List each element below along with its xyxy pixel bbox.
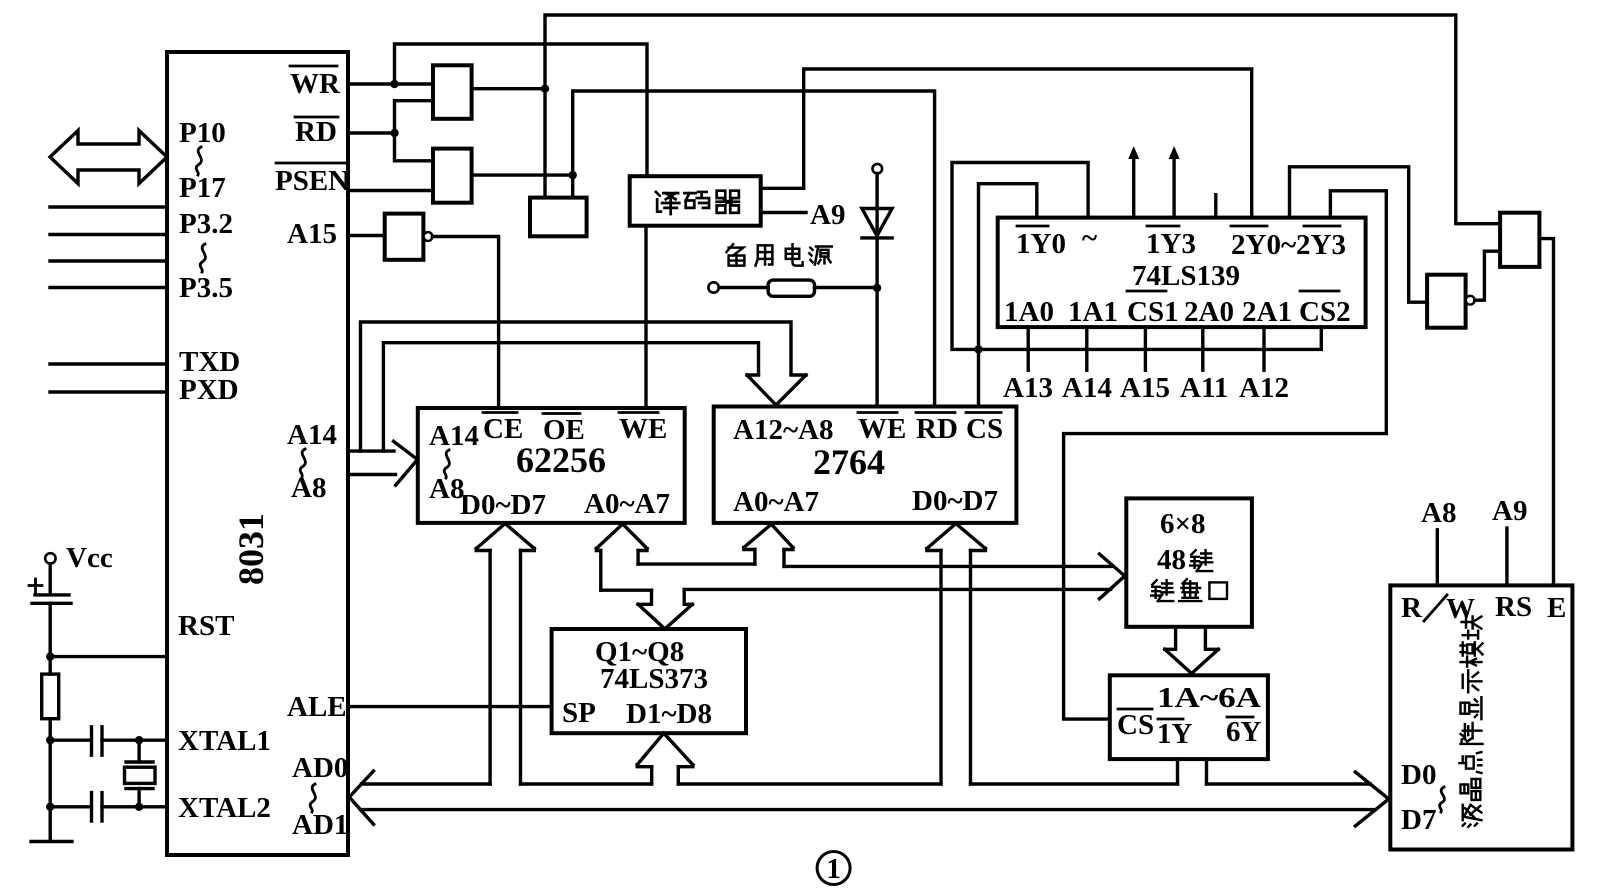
wire G2 junction down to gate SB	[571, 175, 574, 198]
wire 1Y0 to 2764 CS	[979, 184, 1037, 407]
wire G3 output to 62256 CE	[432, 237, 498, 409]
wire G2 output	[472, 173, 573, 176]
bus arrow keyboard to row decoder	[1165, 627, 1219, 674]
svg-text:WR: WR	[290, 68, 341, 100]
resistor R1	[768, 280, 814, 296]
output arrow 1Y3 up	[1172, 152, 1175, 218]
node XTAL1 junction	[46, 736, 54, 744]
pin 1A1 wire to A14	[1085, 327, 1088, 370]
svg-text:1Y: 1Y	[1157, 718, 1193, 750]
svg-text:A13: A13	[1003, 372, 1053, 404]
node WR junction	[390, 80, 398, 88]
svg-text:6Y: 6Y	[1226, 716, 1262, 748]
svg-text:WE: WE	[858, 413, 906, 445]
wire Vcc to capacitor C1	[49, 564, 52, 592]
svg-text:PXD: PXD	[179, 374, 239, 406]
backup power terminal	[708, 282, 718, 292]
svg-text:P17: P17	[179, 172, 226, 204]
wire PSEN from 8031	[348, 189, 433, 192]
wire 1Y output to data bus	[1176, 759, 1179, 784]
svg-text:CS: CS	[1117, 709, 1154, 741]
svg-text:A9: A9	[810, 199, 845, 231]
decoder label 译码器	[656, 192, 679, 214]
Vcc terminal	[45, 553, 55, 563]
svg-text:E: E	[1547, 592, 1566, 624]
data bus chevron into 8031	[349, 771, 373, 824]
wire 6Y output to data bus	[1205, 759, 1208, 784]
wire WR up to top rail	[395, 44, 648, 176]
svg-text:P3.5: P3.5	[179, 272, 233, 304]
gate G4 (E strobe)	[1500, 213, 1539, 267]
diode D1	[875, 174, 878, 407]
capacitor C3	[92, 793, 103, 821]
microcontroller U1 8031	[167, 52, 348, 855]
inverter G3 (A15)	[385, 214, 424, 260]
wire C1 to RST node	[49, 603, 52, 656]
node crystal bottom junction	[135, 803, 143, 811]
svg-text:WE: WE	[619, 413, 667, 445]
wire decoder bottom to 62256 WE	[644, 226, 647, 408]
wire crystal bottom lead	[137, 789, 140, 807]
gate G1 (WR/RD)	[433, 65, 472, 119]
svg-text:1Y0: 1Y0	[1016, 228, 1066, 260]
wire G1 output	[472, 87, 545, 90]
bus shaft 2764 D0-D7 to data bus	[941, 551, 971, 785]
wire A15 from 8031	[348, 234, 385, 237]
svg-text:W: W	[1446, 593, 1475, 625]
bus arrow up into 62256 A0-A7	[596, 524, 647, 551]
svg-text:2764: 2764	[813, 442, 885, 482]
node XTAL2 junction	[46, 803, 54, 811]
node RD junction	[390, 129, 398, 137]
wire TXD	[50, 362, 167, 365]
node G1 output junction	[541, 85, 549, 93]
decoder box	[630, 176, 761, 226]
wire ALE to SP	[348, 705, 552, 708]
keyboard bus chevron	[1099, 554, 1124, 599]
bus shaft 62256 D0-D7 to data bus	[490, 551, 520, 785]
svg-text:R: R	[1401, 592, 1423, 624]
wire C2 to XTAL1 pin	[102, 739, 167, 742]
squiggle P10-P17	[196, 147, 201, 175]
svg-text:RST: RST	[178, 610, 234, 642]
wire RD to gate G2 input	[395, 133, 434, 161]
svg-text:~: ~	[1082, 222, 1097, 254]
pin 2A0 wire to A11	[1201, 327, 1204, 370]
wire P3.4	[50, 259, 167, 262]
row decoder box 1A-6A	[1110, 675, 1268, 759]
output arrow 1Y up	[1132, 152, 1135, 218]
bus shaft 74LS373 D1-D8	[652, 767, 679, 784]
bus shaft 62256 A0-A7	[601, 551, 638, 591]
wire C3 to XTAL2 pin	[102, 805, 167, 808]
svg-text:A11: A11	[1180, 372, 1228, 404]
capacitor C1 (reset cap)	[32, 595, 71, 603]
svg-text:P3.2: P3.2	[179, 208, 233, 240]
pin CS1 wire to A15	[1144, 327, 1147, 370]
svg-text:2A0: 2A0	[1184, 296, 1234, 328]
ground	[31, 840, 72, 843]
resistor R2	[42, 674, 59, 719]
wire R1 to diode node	[815, 286, 878, 289]
wire A9 to LCD RS	[1505, 528, 1508, 585]
svg-text:CS: CS	[966, 413, 1003, 445]
svg-text:62256: 62256	[516, 440, 606, 480]
wire XTAL1 left segment	[50, 739, 89, 742]
svg-text:SP: SP	[562, 697, 596, 729]
address rail outer (A12-A8 to 2764)	[361, 322, 792, 451]
svg-text:2Y0~2Y3: 2Y0~2Y3	[1231, 229, 1346, 261]
wire P3.5	[50, 286, 167, 289]
capacitor C1 plus sign	[29, 579, 42, 592]
node G2 output junction	[569, 171, 577, 179]
svg-text:AD0: AD0	[292, 752, 348, 784]
wire P3.3	[50, 233, 167, 236]
svg-text:D1~D8: D1~D8	[626, 698, 712, 730]
wire G2 output to 2764 RD	[573, 91, 935, 407]
bus arrow down into 2764 A12-A8	[747, 375, 806, 405]
svg-text:RD: RD	[916, 413, 958, 445]
wire PXD	[50, 390, 167, 393]
wire RD from 8031	[348, 131, 395, 134]
bus arrow up into 2764 A0-A7	[744, 524, 793, 549]
wire XTAL2 left segment	[50, 805, 89, 808]
bus arrow down into 74LS373 Q1-Q8	[638, 589, 692, 629]
wire P3.2	[50, 205, 167, 208]
node RST junction	[46, 652, 54, 660]
svg-text:A0~A7: A0~A7	[584, 488, 670, 520]
svg-text:A0~A7: A0~A7	[733, 486, 819, 518]
svg-text:1: 1	[826, 853, 841, 885]
svg-text:A14: A14	[429, 420, 479, 452]
svg-text:XTAL1: XTAL1	[178, 725, 271, 757]
wire G4 output to LCD E	[1539, 239, 1553, 586]
bus shaft 2764 A0-A7	[755, 550, 784, 567]
pin 2A1 wire to A12	[1262, 327, 1265, 370]
capacitor C2	[92, 727, 103, 755]
svg-text:CS1: CS1	[1127, 296, 1179, 328]
wire WR from 8031	[348, 82, 433, 85]
svg-text:1A1: 1A1	[1068, 296, 1118, 328]
address channel top	[638, 562, 755, 565]
diode D1 terminal	[873, 164, 883, 174]
svg-text:A15: A15	[1120, 372, 1170, 404]
wire 1Y1 to CS2 rail	[952, 163, 1321, 350]
bus arrow up into 2764 D0-D7	[927, 524, 986, 551]
keyboard port box 6x8 48 keys	[1126, 498, 1252, 626]
data bus bottom edge	[361, 808, 1376, 811]
wire crystal top lead	[137, 740, 140, 762]
wire terminal to resistor R1	[719, 286, 768, 289]
wire down to ground	[49, 740, 52, 841]
address channel to keyboard	[784, 565, 1111, 568]
bus arrow up into 74LS373 D1-D8	[637, 733, 693, 767]
wire RD to gate G1 input	[395, 101, 434, 133]
stub pin 2Y	[1214, 195, 1217, 218]
svg-text:CS2: CS2	[1299, 296, 1351, 328]
wire RST	[50, 655, 167, 658]
svg-text:D0~D7: D0~D7	[912, 485, 998, 517]
svg-text:48: 48	[1157, 544, 1186, 576]
label LCD 液晶点阵显示模块 vertical	[1462, 617, 1482, 639]
svg-text:1Y3: 1Y3	[1146, 228, 1196, 260]
wire A8 to LCD R/W	[1436, 530, 1439, 586]
squiggle P3.2-P3.5	[200, 244, 205, 272]
wire decoder to A9 label	[761, 211, 806, 214]
svg-text:2A1: 2A1	[1242, 296, 1292, 328]
address channel bottom right	[684, 588, 1110, 591]
gate G2 (RD/PSEN)	[433, 149, 472, 203]
EPROM U3 2764	[714, 407, 1017, 523]
wire G5 output to G4 input	[1475, 251, 1501, 300]
latch U5 74LS373	[552, 629, 746, 733]
wire node to resistor R2	[49, 657, 52, 675]
svg-text:1A~6A: 1A~6A	[1157, 682, 1261, 714]
svg-text:P10: P10	[179, 117, 226, 149]
svg-text:PSEN: PSEN	[275, 165, 349, 197]
SRAM U2 62256	[418, 408, 685, 523]
node crystal top junction	[135, 736, 143, 744]
gate SB	[530, 198, 587, 237]
svg-text:D0: D0	[1401, 759, 1436, 791]
wire decoder output to 74LS139 2Y0	[761, 69, 1252, 218]
svg-text:RS: RS	[1495, 591, 1532, 623]
decoder U4 74LS139	[998, 218, 1366, 328]
svg-text:A15: A15	[287, 218, 337, 250]
label 备用电源	[726, 244, 744, 265]
node CS2 rail junction	[974, 345, 982, 353]
address rail inner	[383, 343, 758, 451]
svg-text:XTAL2: XTAL2	[178, 792, 271, 824]
crystal Y1	[126, 760, 153, 763]
svg-text:A8: A8	[291, 472, 326, 504]
wire 2Y1 to inverter G5	[1290, 167, 1428, 302]
bus arrow 8031 A14-A8 to 62256	[348, 441, 418, 485]
svg-text:8031: 8031	[231, 513, 271, 585]
svg-text:A14: A14	[1062, 372, 1112, 404]
svg-text:74LS373: 74LS373	[600, 663, 708, 695]
svg-text:A9: A9	[1492, 495, 1527, 527]
address channel bottom left	[601, 589, 652, 592]
pin 1A0 wire to A13	[1026, 327, 1029, 370]
svg-text:D0~D7: D0~D7	[460, 489, 546, 521]
svg-text:A12: A12	[1239, 372, 1289, 404]
svg-text:6×8: 6×8	[1160, 508, 1206, 540]
svg-text:74LS139: 74LS139	[1132, 260, 1240, 292]
wire top rail from G1 junction to gate G4	[545, 15, 1500, 224]
data bus top edge	[362, 782, 1371, 785]
svg-text:A14: A14	[287, 419, 337, 451]
LCD module box	[1390, 585, 1572, 849]
svg-text:AD1: AD1	[292, 809, 348, 841]
node diode junction	[873, 284, 881, 292]
svg-text:A8: A8	[1421, 497, 1456, 529]
wire R2 to XTAL1 node	[49, 719, 52, 741]
bidirectional port bus arrow P10-P17	[50, 131, 167, 184]
figure number 1 circled	[817, 852, 850, 885]
data bus chevron into LCD module	[1355, 772, 1389, 826]
svg-text:Vcc: Vcc	[66, 542, 113, 574]
svg-text:D7: D7	[1401, 804, 1436, 836]
svg-text:ALE: ALE	[287, 691, 347, 723]
svg-text:RD: RD	[295, 116, 337, 148]
bus arrow up into 62256 D0-D7	[476, 524, 534, 551]
inverter G5	[1427, 275, 1466, 328]
svg-text:1A0: 1A0	[1004, 296, 1054, 328]
wire 2Y3 to keyboard decoder CS	[1064, 191, 1387, 719]
